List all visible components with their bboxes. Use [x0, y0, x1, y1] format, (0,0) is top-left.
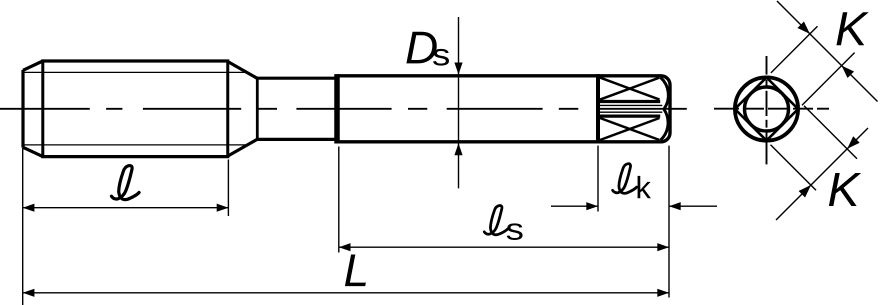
extension line square start (lk) — [597, 146, 599, 212]
dimension line lk left stub — [551, 205, 598, 207]
label l (script ell) — [112, 166, 140, 200]
extension line right end (lk, ls, L) — [668, 146, 670, 298]
thread body outline — [23, 61, 229, 157]
shank face line — [334, 74, 340, 143]
dimension line ls — [339, 246, 669, 248]
flat cross X top band — [600, 78, 660, 100]
taper to neck bottom — [227, 139, 257, 156]
extension line right of thread (l) — [227, 160, 229, 217]
square end chamfer arc top — [661, 77, 669, 109]
centerline main axis — [0, 108, 687, 110]
extension line shank start (ls) — [338, 147, 340, 253]
section view vertical centerline — [766, 56, 768, 164]
label L — [345, 254, 366, 286]
neck start vertical — [256, 78, 259, 139]
dimension line L — [23, 292, 669, 294]
K upper arrow 1 — [797, 21, 809, 33]
section inner circle — [745, 87, 789, 131]
extension line left (l and L) — [22, 148, 24, 305]
K lower extension line D (SW flat extended) — [771, 145, 817, 191]
K upper dimension line — [777, 1, 878, 102]
thread end vertical — [226, 61, 229, 157]
label lk — [613, 164, 637, 194]
Ds dimension line — [458, 17, 460, 188]
Ds arrow top — [454, 63, 462, 75]
K lower extension line E (NE flat extended) — [804, 106, 857, 159]
label K lower — [829, 173, 861, 206]
square mid thin line upper — [599, 104, 662, 106]
flat cross X bottom band — [600, 118, 660, 140]
K lower arrow 2 — [847, 136, 859, 148]
K upper extension line A (NW flat extended) — [771, 26, 818, 73]
section view horizontal centerline — [714, 108, 829, 110]
neck bottom line — [256, 138, 337, 141]
dimension line l — [23, 207, 229, 209]
section outer circle (shank dia) — [735, 77, 798, 140]
label Ds — [406, 32, 436, 64]
square flat band edge top — [598, 100, 660, 103]
neck top line — [256, 77, 337, 80]
label ls — [484, 205, 508, 234]
dimension line lk right stub — [669, 205, 717, 207]
square mid thin line lower — [599, 111, 662, 113]
Ds arrow bottom — [454, 143, 462, 155]
K upper arrow 2 — [842, 66, 854, 78]
K upper extension line C (SE flat extended) — [802, 53, 855, 106]
shank and square outline — [337, 76, 670, 142]
square start vertical — [596, 74, 600, 143]
thread root line bottom — [23, 144, 247, 146]
square end chamfer arc bottom — [661, 109, 669, 140]
square flat band edge bottom — [598, 114, 660, 117]
K lower dimension line — [776, 128, 868, 220]
section square (diamond) — [735, 77, 798, 140]
thread root line top — [23, 71, 247, 73]
K lower arrow 1 — [799, 185, 811, 197]
chamfer vertical line — [41, 61, 44, 157]
taper to neck top — [227, 61, 257, 78]
label K upper — [836, 12, 868, 45]
